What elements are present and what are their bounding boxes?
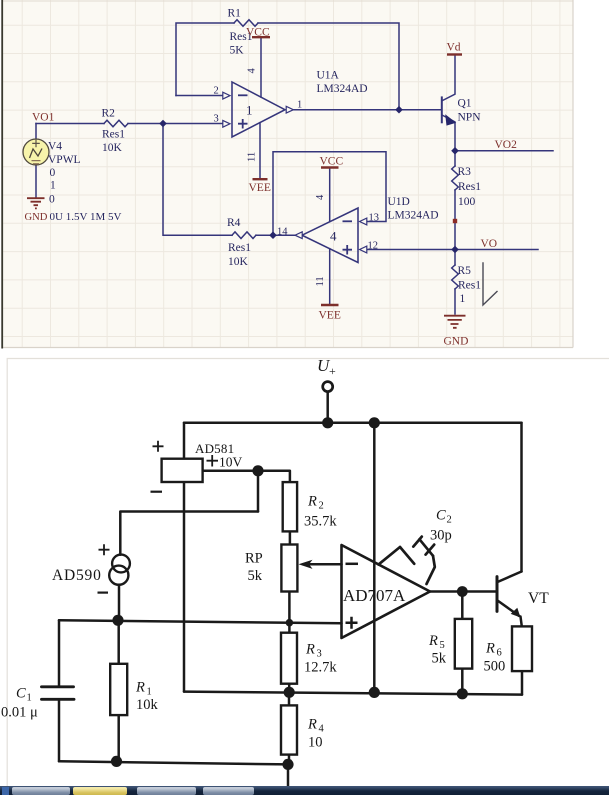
wire: R3 top stem [454,151,456,166]
wire: pin12 run to VO net [367,249,539,251]
wire: R4 stems [288,692,291,764]
small red node between R3 and VO [453,219,457,223]
wire: rail right drop to VT collector [520,423,523,572]
svg-text:4: 4 [247,68,258,74]
wire: noninverting input row [59,620,342,623]
junction dot: +10V node [252,465,263,476]
wire: U1A pin11 VEE stem [259,123,261,179]
resistor R1 body [110,664,127,715]
wire: R3 bottom stem to VO row [454,190,456,250]
svg-text:R: R [307,717,317,733]
svg-text:12.7k: 12.7k [304,660,337,676]
wire: U1D pin11 VEE stem [329,249,331,305]
transistor VT base bar [496,577,499,612]
svg-text:LM324AD: LM324AD [317,83,368,95]
wire: U+ terminal stem [326,392,329,423]
svg-text:10K: 10K [228,256,249,268]
svg-text:R: R [305,642,315,658]
junction node at VO [451,246,459,254]
top schematic right/bottom faint border [3,0,573,348]
capacitor C2 strokes [379,537,435,584]
top schematic paper background [3,0,573,348]
wire: row to AD590 [120,512,258,555]
wire: R1 top stem [117,620,120,664]
svg-text:GND: GND [444,336,469,348]
junction node at R2/pin3 [159,120,167,128]
svg-text:R4: R4 [227,217,241,229]
wire: top supply rail [184,421,522,424]
junction dot: bottom rail R4 [282,759,293,770]
junction dot: output node [457,586,468,597]
potentiometer RP body [281,545,297,592]
svg-text:2: 2 [319,501,324,512]
svg-text:35.7k: 35.7k [304,514,337,530]
svg-text:VCC: VCC [246,27,270,39]
svg-text:10K: 10K [102,142,123,154]
resistor R3 body [281,633,297,684]
wire: R5 bottom stem to GND [454,289,456,314]
op-amp minus glyph [346,563,359,566]
wire: C1 bottom branch [58,700,61,761]
junction dot: power vertical on rail [369,417,380,428]
ground symbol under R5 [444,316,466,328]
AD581 box [162,459,203,482]
wire: R5 top stem [454,250,456,266]
svg-text:U1D: U1D [388,196,410,208]
svg-text:10V: 10V [219,455,243,470]
probe mark near R5 [483,263,497,305]
svg-text:U1A: U1A [317,70,340,82]
junction node at U1A output [395,106,403,114]
svg-text:R1: R1 [228,8,242,20]
wire: VO2 run [455,150,553,152]
wire: inverting input to RP wiper [303,563,342,566]
top schematic top faint line [3,0,573,2]
svg-text:R: R [428,633,438,649]
svg-text:LM324AD: LM324AD [388,210,439,222]
power Vd bar [447,53,462,55]
transistor Q1 emitter [442,115,455,151]
svg-text:Res1: Res1 [458,181,481,193]
resistor R5 zigzag vertical [452,265,459,289]
wire: R1 to right vertical down to output node [258,23,399,110]
left black border line [1,0,3,349]
svg-text:1: 1 [147,687,152,698]
svg-text:VO: VO [481,238,498,250]
resistor R2 zigzag [104,120,128,127]
wire: output row to Q1 base [294,109,441,111]
svg-text:14: 14 [277,227,288,238]
junction dot: R3 ground [284,687,295,698]
wire: feedback loop left vertical and top run to R1 [176,23,234,96]
junction node at VO2 [451,147,459,155]
svg-text:Res1: Res1 [102,129,125,141]
svg-text:Vd: Vd [447,42,461,54]
wire: V4 top lead [35,124,37,140]
svg-text:R: R [485,641,495,657]
svg-text:NPN: NPN [458,112,482,124]
transistor VT collector [498,572,522,583]
wire: R6 bottom stem [521,671,524,695]
resistor R6 body [512,626,532,671]
svg-text:30p: 30p [430,528,452,544]
svg-text:0: 0 [50,167,56,179]
op-amp plus glyph [346,617,358,629]
svg-text:C: C [16,686,26,702]
bottom image faint border [7,359,609,787]
wire: VO1 net to R2 [36,123,104,125]
svg-text:Res1: Res1 [228,242,251,254]
svg-text:4: 4 [319,724,325,735]
svg-text:100: 100 [458,196,476,208]
RP wiper arrowhead [299,560,313,569]
resistor R4 body [281,705,297,754]
resistor R3 zigzag vertical [452,166,459,190]
transistor VT emitter [498,601,520,616]
junction dot: power vertical ground [369,687,380,698]
svg-text:RP: RP [245,551,263,567]
svg-text:1: 1 [246,103,253,118]
resistor R2 body [283,482,297,531]
junction dot: U+ on rail [322,417,333,428]
junction dot: + input node [286,619,294,627]
wire: +10V output to R2 [203,471,290,482]
resistor R1 zigzag [234,20,258,27]
svg-text:0U 1.5V 1M 5V: 0U 1.5V 1M 5V [50,211,122,223]
wire: V4 bottom lead to GND [35,165,37,197]
wire: pin2 stub [176,95,223,97]
transistor Q1 base bar [441,97,443,122]
wire: C1 top branch [58,620,61,686]
svg-text:R3: R3 [458,166,472,178]
svg-text:2: 2 [447,515,452,526]
svg-text:5: 5 [440,640,445,651]
wire: R5 stems [461,592,464,694]
junction dot: bottom rail R1 [111,756,122,767]
svg-text:4: 4 [330,229,337,244]
wire: R3 bottom stem [288,684,291,693]
wire: AD590 bottom lead [118,585,121,621]
grid of top schematic [3,0,573,348]
pin numbers U1D [277,194,379,287]
plus glyph of +10V [207,455,219,467]
wire: R4 to U1D output arrow [256,234,295,236]
power VCC bar (U1A) [252,36,270,38]
polarity + of AD581 [153,441,164,452]
svg-text:R2: R2 [102,108,116,120]
current source AD590 circles [112,555,130,573]
junction dot: R5 ground [457,688,468,699]
wire: ground rail [184,692,522,695]
svg-text:VO2: VO2 [495,139,518,151]
svg-text:6: 6 [497,648,502,659]
svg-text:0.01 μ: 0.01 μ [1,705,38,721]
polarity + of AD590 [99,544,110,555]
transistor Q1 emitter arrow [445,114,456,125]
wire: U1D pin4 VCC stem [329,168,331,222]
wire: U1D feedback loop [273,152,386,235]
svg-text:V4: V4 [48,141,62,153]
svg-text:13: 13 [369,213,380,224]
power VEE bar (U1D) [321,304,339,306]
svg-text:AD707A: AD707A [343,586,406,605]
op-amp U1D (mirrored) [295,208,367,263]
svg-text:1: 1 [27,693,32,704]
svg-text:5k: 5k [248,568,263,584]
svg-text:+: + [329,364,336,378]
svg-text:1: 1 [460,293,466,305]
resistor R4 zigzag [232,232,256,239]
ground symbol under V4 [27,198,45,208]
svg-text:R: R [135,680,145,696]
svg-text:GND: GND [25,212,48,223]
wire: junction down to R4 row [163,124,232,236]
power VEE bar (U1A) [253,178,268,180]
svg-text:Res1: Res1 [458,280,481,292]
svg-text:Q1: Q1 [458,98,472,110]
svg-text:10: 10 [308,735,323,751]
svg-text:0: 0 [49,194,55,206]
pin numbers U1A [214,68,303,163]
capacitor C1 plates [42,685,74,688]
wire: +10V node down [257,471,260,512]
svg-text:1: 1 [297,100,302,111]
taskbar strip at bottom [0,786,609,795]
svg-text:2: 2 [214,86,219,97]
wire: op-amp power vertical [373,423,376,693]
resistor R5 body [455,619,472,669]
svg-text:1: 1 [50,180,56,192]
svg-text:3: 3 [214,114,219,125]
svg-text:R: R [307,494,317,510]
svg-text:VT: VT [528,590,549,607]
svg-text:500: 500 [484,659,506,675]
svg-text:R5: R5 [458,265,472,277]
svg-text:VCC: VCC [320,156,344,168]
wire: VT emitter to R6 [521,617,522,627]
wire: rail left drop to AD581 [183,423,186,459]
junction node at U1D output [269,231,277,239]
svg-text:VEE: VEE [249,182,271,194]
svg-text:C: C [436,508,446,524]
VT emitter arrowhead [511,608,521,618]
junction dot: R1/C1/AD590 node [112,615,123,626]
op-amp AD707A triangle [342,545,431,638]
voltage source V4 [23,139,49,165]
svg-text:5k: 5k [432,651,447,667]
svg-text:12: 12 [368,241,379,252]
op-amp U1A [223,82,294,137]
svg-text:VPWL: VPWL [48,154,81,166]
svg-text:VEE: VEE [319,310,341,322]
svg-text:5K: 5K [230,45,245,57]
wire: R2 to pin3 with junction [128,123,223,125]
svg-text:AD590: AD590 [52,567,102,584]
svg-text:11: 11 [315,276,326,286]
wire: RP to R3 through + node [288,591,291,632]
svg-text:4: 4 [315,194,326,200]
wire: bottom stub [287,764,290,790]
svg-text:10k: 10k [136,697,159,713]
svg-text:11: 11 [247,152,258,162]
power VCC bar (U1D) [321,166,339,168]
polarity - of AD590 [98,591,109,593]
wire: bottom rail [59,761,288,764]
wire: U1A pin4 VCC stem [260,37,262,97]
wire: R1 bottom stem [117,715,120,761]
wire: op-amp output [430,590,496,593]
polarity - of AD581 [151,491,163,493]
U+ terminal circle [323,382,333,392]
bottom schematic labels [1,356,549,751]
top schematic labels [48,8,481,306]
wire: R2-RP link [289,531,292,544]
svg-text:3: 3 [317,649,322,660]
svg-text:VO1: VO1 [32,112,55,124]
wire: AD581 minus long vertical to ground rail [183,482,186,692]
transistor Q1 collector [442,55,455,101]
